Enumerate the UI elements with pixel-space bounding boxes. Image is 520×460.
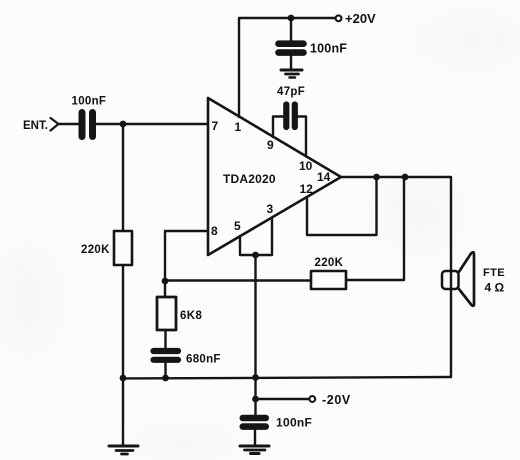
svg-text:680nF: 680nF	[186, 354, 221, 366]
wire R3 to output node	[346, 177, 404, 280]
svg-text:6K8: 6K8	[180, 310, 203, 322]
ground (bottom)	[240, 445, 269, 448]
svg-text:47pF: 47pF	[277, 86, 305, 98]
svg-text:9: 9	[267, 138, 274, 152]
ground rail wire	[123, 377, 451, 379]
wire -20V stub	[256, 398, 309, 400]
wire R2 top	[164, 281, 166, 297]
wire C4 to ground rail	[164, 363, 166, 378]
wire pin1 to +20V rail	[239, 18, 335, 117]
svg-text:100nF: 100nF	[310, 42, 347, 56]
svg-text:14: 14	[317, 170, 331, 184]
svg-text:FTE: FTE	[483, 267, 505, 279]
wire pin5/3 node down to -20V rail	[254, 255, 256, 399]
svg-text:ENT.: ENT.	[23, 120, 48, 132]
node ground rail left junction	[120, 375, 127, 382]
svg-text:7: 7	[212, 119, 219, 133]
svg-text:3: 3	[267, 202, 274, 216]
node pin5/3 junction	[252, 252, 259, 259]
input chevron ENT.	[51, 118, 59, 131]
wire -20V node to C5	[254, 399, 256, 415]
svg-text:220K: 220K	[315, 257, 344, 269]
wire pin 12 feedback box	[307, 177, 377, 235]
svg-text:-20V: -20V	[322, 393, 351, 407]
svg-text:1: 1	[235, 120, 242, 134]
wire 47pF left leg to pin 9	[273, 117, 283, 138]
node output junction 2	[402, 174, 409, 181]
wire speaker bottom	[450, 271, 452, 377]
node -20V junction	[252, 396, 259, 403]
terminal +20V	[336, 15, 342, 21]
ground (top)	[281, 69, 302, 72]
resistor R1 220K	[114, 231, 132, 265]
wire output	[341, 177, 451, 271]
node ground rail mid junction	[252, 374, 259, 381]
resistor R2 6K8	[157, 297, 176, 330]
svg-text:4 Ω: 4 Ω	[485, 281, 505, 295]
svg-text:TDA2020: TDA2020	[223, 172, 276, 186]
capacitor C2 100nF plates	[82, 113, 93, 137]
svg-text:220K: 220K	[81, 244, 110, 256]
wire input to C2	[59, 123, 79, 125]
capacitor C1 100nF plates	[279, 44, 304, 53]
wire C5 to ground	[254, 430, 256, 445]
wire C2 to pin 7	[96, 123, 208, 125]
svg-text:10: 10	[299, 159, 313, 173]
wire input node down to R1	[122, 124, 124, 231]
wire 47pF right leg to pin 10	[298, 117, 306, 157]
node input junction	[120, 121, 127, 128]
node C4 ground junction	[162, 375, 169, 382]
speaker LS1 frame	[442, 271, 459, 289]
svg-text:+20V: +20V	[345, 11, 376, 26]
svg-text:100nF: 100nF	[72, 96, 107, 108]
node feedback junction	[162, 278, 169, 285]
node +20V junction	[288, 15, 295, 22]
capacitor C5 100nF plates	[243, 418, 266, 427]
resistor R3 220K feedback	[311, 271, 346, 289]
wire R1 to ground	[122, 265, 124, 446]
wire pin 8 feedback	[165, 231, 208, 281]
wire C1 to ground	[290, 56, 292, 69]
speaker LS1 cone	[459, 252, 475, 306]
wire feedback node to R3	[165, 279, 311, 281]
svg-text:8: 8	[211, 224, 218, 238]
ground (left)	[109, 445, 138, 448]
wire R2 to C4	[164, 330, 166, 348]
terminal -20V	[309, 396, 315, 402]
wire pin 5 / pin 3 box	[240, 218, 272, 256]
capacitor C3 47pF plates	[286, 105, 295, 128]
svg-text:5: 5	[234, 219, 241, 233]
capacitor C4 680nF plates	[154, 351, 179, 360]
svg-text:12: 12	[300, 182, 314, 196]
wire +20V to C1	[290, 18, 292, 41]
svg-text:100nF: 100nF	[276, 416, 312, 430]
node output junction 1	[373, 174, 380, 181]
op-amp U1 TDA2020	[208, 98, 341, 255]
